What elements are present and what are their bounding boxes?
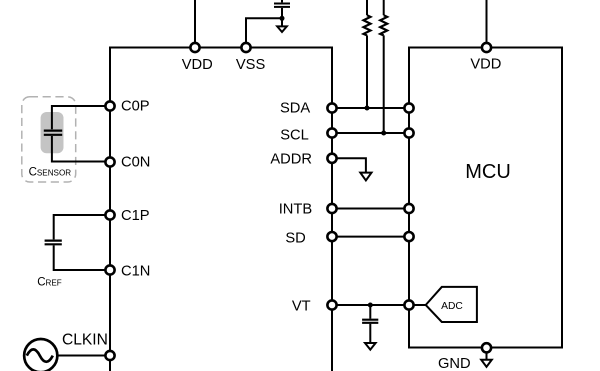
wire C0N loop — [52, 136, 110, 162]
capacitor C1 (VSS decoupling) — [274, 0, 290, 18]
pin VDD (MCU) — [482, 43, 491, 52]
ADC block (MCU internal) — [426, 287, 477, 322]
wire CLKIN — [57, 355, 110, 357]
node VSS junction — [280, 16, 285, 21]
node SCL junction — [381, 131, 386, 136]
svg-text:CSENSOR: CSENSOR — [29, 166, 72, 178]
pin C1P — [105, 210, 114, 219]
ground (VSS node) — [277, 18, 287, 32]
oscillator X1 (clock source) — [24, 339, 57, 371]
svg-text:CLKIN: CLKIN — [62, 331, 108, 348]
pin SD (U1) — [327, 232, 336, 241]
resistor R1 (SDA pull-up) — [364, 0, 371, 108]
node SDA junction — [365, 106, 370, 111]
pin C0N — [105, 157, 114, 166]
pin CLKIN — [105, 351, 114, 360]
svg-text:INTB: INTB — [279, 202, 313, 218]
pin SD (MCU) — [404, 232, 413, 241]
wire C0P loop — [52, 106, 110, 129]
wire VT net — [332, 304, 409, 306]
resistor R2 (SCL pull-up) — [380, 0, 387, 133]
wire INTB net — [332, 208, 409, 210]
capacitor C_REF — [45, 241, 62, 245]
wire VDD supply to U1 — [194, 0, 196, 48]
node VT junction — [368, 303, 373, 308]
svg-text:ADC: ADC — [441, 301, 463, 312]
pin INTB (MCU) — [404, 204, 413, 213]
svg-text:C1P: C1P — [121, 208, 150, 224]
sensor body (gray) — [41, 112, 64, 153]
svg-text:C0P: C0P — [121, 99, 150, 115]
svg-text:SDA: SDA — [280, 100, 310, 116]
ground (ADDR) — [360, 173, 371, 181]
pin SCL (MCU) — [404, 128, 413, 137]
svg-text:VDD: VDD — [182, 57, 213, 73]
svg-text:SD: SD — [285, 230, 305, 246]
wire C1N loop — [54, 245, 110, 270]
svg-text:C1N: C1N — [121, 264, 150, 280]
ground (MCU GND) — [481, 354, 492, 367]
svg-text:SCL: SCL — [280, 128, 309, 144]
pin SCL (U1) — [327, 128, 336, 137]
svg-text:C0N: C0N — [121, 155, 150, 171]
svg-text:CREF: CREF — [37, 276, 62, 288]
svg-text:GND: GND — [438, 356, 471, 371]
pin SDA (U1) — [327, 103, 336, 112]
wire SCL net — [332, 132, 409, 134]
svg-text:VSS: VSS — [236, 57, 266, 73]
wire C1P loop — [54, 215, 110, 239]
pin C0P — [105, 101, 114, 110]
pin ADDR (U1) — [327, 154, 336, 163]
pin VT (U1) — [327, 300, 336, 309]
pin GND (MCU) — [482, 343, 491, 352]
wire VDD supply to MCU — [486, 0, 488, 48]
pin VT/ADC (MCU) — [404, 300, 413, 309]
pin SDA (MCU) — [404, 103, 413, 112]
svg-text:VDD: VDD — [470, 57, 501, 73]
sensor C_SENSOR dashed enclosure — [22, 97, 76, 182]
svg-text:MCU: MCU — [465, 161, 511, 183]
wire SD net — [332, 236, 409, 238]
capacitor C_SENSOR — [44, 131, 62, 135]
wire SDA net — [332, 107, 409, 109]
svg-text:ADDR: ADDR — [270, 152, 312, 168]
IC U1 (capacitance converter) outline — [110, 48, 332, 371]
pin VSS (U1) — [241, 43, 250, 52]
pin INTB (U1) — [327, 204, 336, 213]
svg-text:VT: VT — [292, 298, 311, 314]
wire VSS stub from U1 to decoupling node — [246, 18, 282, 47]
ground (VT filter) — [365, 343, 376, 350]
pin VDD (U1) — [190, 43, 199, 52]
wire ADC tap — [409, 304, 426, 306]
capacitor C2 (VT filter) — [362, 305, 378, 343]
MCU U2 outline — [409, 48, 562, 348]
wire ADDR stub — [332, 158, 366, 172]
pin C1N — [105, 265, 114, 274]
